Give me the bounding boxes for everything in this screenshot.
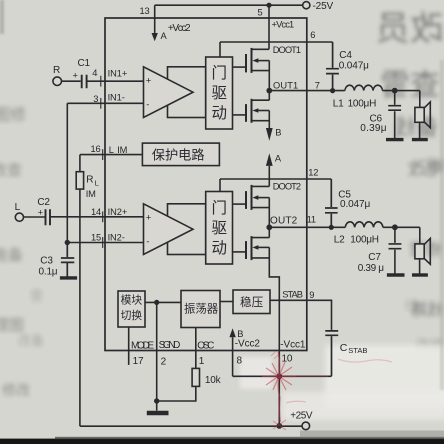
svg-text:L1: L1 xyxy=(333,99,344,110)
left edge smudge xyxy=(0,0,4,34)
svg-text:A: A xyxy=(161,31,168,41)
node SGND junction xyxy=(154,300,159,305)
wire gate lead M2 xyxy=(233,114,247,116)
svg-text:L: L xyxy=(15,202,21,213)
ground SP1 xyxy=(412,138,428,141)
wire pin5 +Vcc1 vertical to M1 drain xyxy=(268,5,270,49)
svg-text:动: 动 xyxy=(212,104,228,122)
svg-text:C3: C3 xyxy=(40,255,53,266)
svg-text:门: 门 xyxy=(212,64,228,82)
speaker SP2 xyxy=(419,227,421,244)
gate driver box1 xyxy=(206,57,233,129)
svg-text:A: A xyxy=(275,153,282,163)
wire -Vcc rail xyxy=(233,375,332,377)
svg-text:17: 17 xyxy=(133,356,144,367)
svg-text:B: B xyxy=(237,329,243,339)
svg-text:C1: C1 xyxy=(78,58,91,69)
svg-text:STAB: STAB xyxy=(348,346,367,355)
wire top rail pin13 to -25V xyxy=(155,4,303,6)
ground SGND xyxy=(147,411,169,415)
pin tick 14 xyxy=(102,211,104,222)
terminal +25V xyxy=(302,422,310,430)
svg-text:IM: IM xyxy=(117,145,127,155)
svg-text:-Vcc2: -Vcc2 xyxy=(235,338,261,349)
svg-text:12: 12 xyxy=(308,168,318,178)
wire pin10 down to +25V rail xyxy=(278,376,280,426)
svg-text:DOOT1: DOOT1 xyxy=(273,45,301,55)
capacitor C5 xyxy=(325,179,338,227)
pin tick 4 xyxy=(100,76,102,87)
svg-text:14: 14 xyxy=(91,207,101,217)
inductor L1 xyxy=(345,85,383,90)
wire DOOT2 pin12 xyxy=(220,179,331,192)
svg-text:电备: 电备 xyxy=(0,247,23,264)
svg-text:IN2+: IN2+ xyxy=(108,207,128,217)
svg-text:100μH: 100μH xyxy=(350,235,379,246)
svg-text:IN1+: IN1+ xyxy=(108,68,128,78)
block protection circuit xyxy=(142,143,219,166)
resistor R_L IM xyxy=(76,172,83,189)
wire M4 source to -Vcc1 pin10 xyxy=(269,247,279,376)
svg-text:图修: 图修 xyxy=(0,106,26,124)
svg-text:模块: 模块 xyxy=(121,293,143,306)
svg-text:-: - xyxy=(146,237,149,247)
pin 13 arrow A +Vcc2 xyxy=(154,5,156,33)
wire gate lead M3 xyxy=(233,203,247,205)
svg-text:+: + xyxy=(146,212,151,222)
svg-text:0.047μ: 0.047μ xyxy=(340,199,370,210)
node C7 junction xyxy=(392,224,398,230)
capacitor C3 xyxy=(61,243,74,277)
capacitor C4 xyxy=(326,42,339,91)
svg-text:4: 4 xyxy=(92,68,97,78)
transistor M4 xyxy=(252,227,270,237)
ground C3 xyxy=(60,276,77,279)
red annotation marks xyxy=(262,351,392,430)
gate driver box2 xyxy=(206,192,233,265)
svg-text:R: R xyxy=(86,174,93,185)
svg-text:门: 门 xyxy=(212,199,228,217)
svg-text:C: C xyxy=(340,342,348,354)
svg-text:IN1-: IN1- xyxy=(108,93,125,103)
svg-text:OUT1: OUT1 xyxy=(273,81,298,91)
svg-text:5: 5 xyxy=(258,8,263,18)
svg-text:振荡器: 振荡器 xyxy=(184,302,219,316)
svg-text:保护电路: 保护电路 xyxy=(152,147,205,162)
transistor M3 xyxy=(252,185,270,187)
ground C6 xyxy=(386,138,404,141)
svg-text:15: 15 xyxy=(91,232,101,242)
svg-text:B: B xyxy=(275,127,281,137)
block oscillator xyxy=(181,291,220,328)
svg-text:DOOT2: DOOT2 xyxy=(273,182,301,192)
svg-text:修改: 修改 xyxy=(2,382,30,398)
svg-text:R: R xyxy=(53,65,60,76)
svg-text:1: 1 xyxy=(199,356,205,367)
wire M3 source tie to OUT2 xyxy=(268,198,270,228)
wire pin8 B arrow xyxy=(229,328,235,337)
svg-text:-: - xyxy=(146,100,149,110)
wire STAB pin9 xyxy=(270,300,332,330)
svg-text:6: 6 xyxy=(310,30,315,40)
wire R_L top lead xyxy=(79,155,81,172)
scan band bottom xyxy=(0,439,444,444)
speaker SP1 xyxy=(419,91,421,108)
wire M1 source tie to OUT1 xyxy=(268,61,270,91)
svg-text:MODE: MODE xyxy=(131,341,155,352)
block regulator xyxy=(233,290,270,314)
svg-text:16: 16 xyxy=(91,144,101,154)
svg-text:C2: C2 xyxy=(37,197,50,208)
svg-text:改查: 改查 xyxy=(0,162,22,179)
svg-text:动: 动 xyxy=(212,239,228,257)
capacitor C6 xyxy=(388,91,401,138)
svg-text:STAB: STAB xyxy=(282,290,303,300)
svg-text:0.1μ: 0.1μ xyxy=(39,267,58,278)
bleed-through noise top right xyxy=(376,10,444,319)
svg-text:OUT2: OUT2 xyxy=(270,215,298,226)
svg-text:+: + xyxy=(146,75,151,85)
svg-text:改员: 改员 xyxy=(376,10,444,48)
svg-text:L: L xyxy=(95,179,99,188)
wire pin4 IN1+ xyxy=(62,80,144,82)
wire +25V bottom rail xyxy=(80,425,302,427)
pin tick 3 xyxy=(100,98,102,109)
svg-text:线: 线 xyxy=(405,298,418,313)
transistor M2 xyxy=(252,91,270,101)
svg-text:查雪: 查雪 xyxy=(380,69,440,102)
svg-text:0.39μ: 0.39μ xyxy=(360,123,386,134)
wire pin16 L IM xyxy=(80,154,142,156)
op-amp U1B output rect xyxy=(168,204,206,255)
svg-text:9: 9 xyxy=(309,290,314,300)
svg-text:+Vcc2: +Vcc2 xyxy=(168,23,191,34)
wire OUT2 xyxy=(269,226,345,228)
terminal R input xyxy=(53,77,62,86)
svg-text:+25V: +25V xyxy=(290,411,313,422)
svg-text:OSC: OSC xyxy=(197,340,214,351)
wire OSC pin1 xyxy=(195,328,197,369)
svg-text:0.39 μ: 0.39 μ xyxy=(358,263,384,274)
svg-text:驱: 驱 xyxy=(212,84,228,102)
op-amp U1A xyxy=(144,67,194,118)
svg-text:改备: 改备 xyxy=(18,333,44,348)
wire gate lead M4 xyxy=(233,251,247,253)
wire SGND pin2 xyxy=(156,302,158,401)
svg-text:SGND: SGND xyxy=(159,340,181,351)
node OUT1 xyxy=(266,88,272,94)
svg-text:11: 11 xyxy=(307,214,316,224)
wire OUT1 xyxy=(269,90,345,92)
capacitor C7 xyxy=(389,227,402,273)
op-amp U1B xyxy=(144,204,194,255)
svg-text:L: L xyxy=(109,145,114,155)
svg-text:-Vcc1: -Vcc1 xyxy=(280,340,306,351)
svg-text:L2: L2 xyxy=(334,235,345,246)
inductor L2 xyxy=(345,222,383,227)
svg-text:0.047μ: 0.047μ xyxy=(339,61,369,72)
ground C7 xyxy=(387,273,405,276)
svg-text:查: 查 xyxy=(30,288,43,303)
node C5/OUT2 xyxy=(329,225,334,230)
wire node A arrow ch2 xyxy=(266,153,273,166)
svg-text:IM: IM xyxy=(86,189,96,199)
wire 10k to SGND xyxy=(157,386,196,401)
svg-text:稳压: 稳压 xyxy=(240,295,264,309)
node C3 junction xyxy=(65,240,70,245)
white patch bottom right xyxy=(325,345,444,407)
node C4/OUT1 xyxy=(330,88,335,93)
block module switch xyxy=(118,291,145,327)
pin tick 16 xyxy=(102,149,104,160)
wire R_L bottom down to +25V rail xyxy=(79,189,81,426)
bleed-through left/bottom xyxy=(0,106,444,398)
node SGND/10k junction xyxy=(154,398,159,403)
wire DOOT1 pin6 xyxy=(220,42,333,57)
svg-text:驱: 驱 xyxy=(212,219,228,237)
svg-text:13: 13 xyxy=(140,6,150,16)
ground SP2 xyxy=(412,273,428,276)
svg-text:10: 10 xyxy=(282,354,293,365)
svg-text:IN2-: IN2- xyxy=(108,233,125,243)
svg-text:2: 2 xyxy=(161,356,167,367)
pin tick 15 xyxy=(102,237,104,248)
op-amp U1A output rect xyxy=(168,67,206,118)
node OUT2 xyxy=(266,224,272,230)
resistor 10k xyxy=(192,368,199,386)
svg-text:8: 8 xyxy=(237,356,243,367)
svg-text:7: 7 xyxy=(315,81,320,91)
svg-text:C7: C7 xyxy=(368,252,381,263)
node -Vcc junction xyxy=(276,373,282,379)
wire pin15 IN2- xyxy=(67,242,143,244)
wire M2 source to node B arrow xyxy=(268,111,270,129)
node pin5 junction xyxy=(266,3,271,8)
IC outline U1 xyxy=(105,18,307,351)
terminal L input xyxy=(15,213,23,221)
svg-text:3: 3 xyxy=(93,94,98,104)
wire pin14 IN2+ xyxy=(24,216,144,218)
svg-text:切换: 切换 xyxy=(121,308,143,322)
svg-text:理图: 理图 xyxy=(0,317,24,334)
svg-text:100μH: 100μH xyxy=(348,99,377,110)
svg-text:-25V: -25V xyxy=(313,1,334,12)
wire module to oscillator xyxy=(145,301,181,303)
svg-text:+Vcc1: +Vcc1 xyxy=(272,20,295,30)
svg-text:10k: 10k xyxy=(205,375,222,386)
transistor M1 xyxy=(245,54,247,72)
terminal -25V xyxy=(303,2,310,9)
wire IN1- down to C3 node xyxy=(66,103,68,242)
capacitor C1 xyxy=(82,75,87,89)
capacitor CSTAB xyxy=(325,331,338,376)
wire pin3 IN1- xyxy=(67,102,143,104)
node C6 junction xyxy=(392,88,398,94)
capacitor C2 xyxy=(46,209,51,225)
wire MODE pin17 stub xyxy=(128,327,130,365)
node +25V junction xyxy=(276,423,282,429)
svg-text:C4: C4 xyxy=(339,50,352,61)
svg-text:+: + xyxy=(38,207,43,217)
wire oscillator to regulator xyxy=(220,301,233,303)
svg-text:+: + xyxy=(73,71,78,81)
wire gate lead M1 xyxy=(233,66,247,68)
